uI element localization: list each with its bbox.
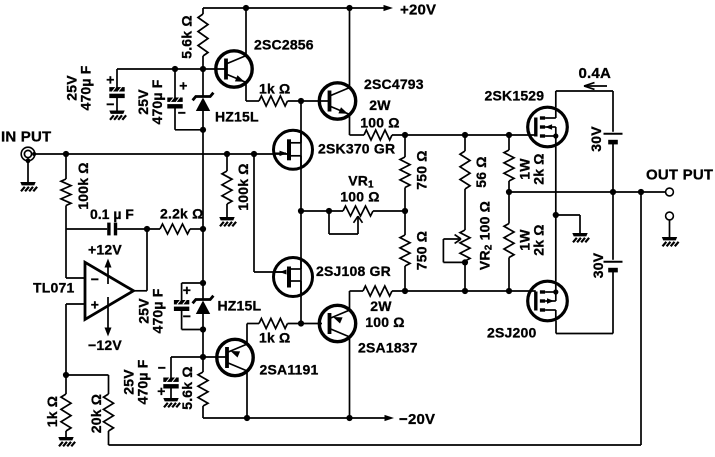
svg-text:−: − bbox=[158, 360, 166, 376]
svg-text:+20V: +20V bbox=[400, 2, 436, 19]
svg-text:IN PUT: IN PUT bbox=[1, 129, 51, 146]
svg-text:2SJ108 GR: 2SJ108 GR bbox=[316, 263, 391, 279]
label C1 25V 470uF bbox=[64, 65, 94, 110]
resistor 1kΩ upper bbox=[259, 96, 288, 106]
mid ground bbox=[572, 233, 589, 242]
jfet 2SJ108 GR bbox=[274, 258, 313, 297]
label 1kΩ feedback bbox=[44, 396, 60, 428]
label 20kΩ bbox=[88, 394, 104, 433]
zener diode HZ15L upper bbox=[193, 93, 214, 101]
wire node A down to 2SK370 drain bbox=[300, 101, 302, 211]
svg-text:+: + bbox=[91, 297, 99, 313]
label 2kΩ 1W upper bbox=[517, 153, 547, 185]
label 5.6kΩ lower bbox=[179, 366, 195, 410]
output terminal 2 bbox=[666, 212, 674, 220]
svg-text:TL071: TL071 bbox=[33, 280, 74, 296]
label 5.6kΩ upper bbox=[179, 15, 195, 59]
op-amp U1 TL071 bbox=[85, 262, 134, 319]
svg-text:0.4A: 0.4A bbox=[579, 65, 612, 82]
node B junction bbox=[298, 320, 304, 326]
svg-text:56 Ω: 56 Ω bbox=[473, 156, 489, 188]
svg-text:+12V: +12V bbox=[88, 242, 122, 258]
junction feedback node bbox=[63, 372, 69, 378]
wire upper output-drive bus bbox=[392, 134, 536, 136]
wire cap to 2.2k bbox=[117, 228, 160, 230]
resistor 1kΩ feedback to gnd bbox=[65, 375, 67, 394]
label C2 25V 470uF bbox=[135, 79, 165, 124]
junction dots cap bus bbox=[172, 66, 178, 72]
transistor Q2 2SC4793 bbox=[319, 83, 355, 119]
wire 1k lower to node B bbox=[288, 323, 323, 325]
junction dots input line bbox=[63, 151, 69, 157]
wire cap bus to base 2SC2856 bbox=[117, 68, 226, 70]
svg-text:2SJ200: 2SJ200 bbox=[487, 325, 536, 341]
svg-text:100 Ω: 100 Ω bbox=[360, 115, 399, 131]
svg-text:2SK1529: 2SK1529 bbox=[485, 88, 545, 104]
label 2kΩ 1W lower bbox=[517, 224, 547, 256]
potentiometer VR2 100Ω bbox=[460, 230, 470, 261]
label 750Ω lower bbox=[414, 231, 430, 270]
wire non-inverting input bbox=[66, 303, 85, 305]
capacitor C4 470uF 25V bbox=[170, 357, 172, 378]
wire gate drop to 2SJ108 bbox=[253, 154, 255, 272]
junction dots VR1 row bbox=[298, 208, 304, 214]
svg-text:470µ F: 470µ F bbox=[135, 359, 151, 404]
svg-text:−: − bbox=[91, 271, 99, 287]
wire to mid ground bbox=[556, 214, 580, 216]
svg-text:2SC2856: 2SC2856 bbox=[254, 37, 314, 53]
label 750Ω upper bbox=[414, 150, 430, 189]
wire C3 top bbox=[182, 282, 203, 284]
wire -20V bottom rail bbox=[203, 417, 385, 419]
svg-text:+: + bbox=[157, 383, 165, 399]
transistor Q3 2SA1191 bbox=[217, 339, 253, 375]
svg-text:OUT PUT: OUT PUT bbox=[646, 167, 713, 184]
output terminal 1 bbox=[666, 188, 674, 196]
wire 2SK1529 drain to battery bbox=[555, 91, 557, 107]
VR1 wiper bbox=[328, 211, 330, 234]
junction output node bbox=[506, 189, 512, 195]
junction dots lower bus bbox=[402, 288, 408, 294]
resistor 5.6kΩ upper bbox=[202, 8, 204, 14]
svg-text:5.6k Ω: 5.6k Ω bbox=[179, 15, 195, 59]
wire Q4 collector to -20V bbox=[349, 337, 351, 418]
svg-text:2k Ω: 2k Ω bbox=[531, 224, 547, 256]
resistor 750Ω upper bbox=[404, 135, 406, 157]
svg-text:2W: 2W bbox=[370, 298, 392, 314]
junction dot feedback bbox=[638, 189, 644, 195]
wire output line bbox=[509, 191, 666, 193]
wire to 20kΩ bbox=[66, 374, 109, 376]
resistor 20kΩ bbox=[108, 375, 110, 394]
label 30V upper bbox=[588, 126, 604, 152]
wire Q2 collector to +20V bbox=[349, 8, 351, 88]
svg-text:+: + bbox=[183, 282, 191, 298]
wire feedback bottom run bbox=[109, 444, 642, 446]
svg-text:HZ15L: HZ15L bbox=[215, 109, 259, 125]
capacitor C3 470uF 25V bbox=[181, 283, 183, 300]
resistor 100kΩ gate bbox=[226, 154, 228, 171]
svg-text:2SC4793: 2SC4793 bbox=[364, 76, 424, 92]
wire VR1 row bbox=[301, 210, 343, 212]
wire node B to 2SJ108 bbox=[300, 211, 302, 324]
mosfet Q6 2SJ200 bbox=[528, 281, 568, 321]
svg-text:100k Ω: 100k Ω bbox=[75, 162, 91, 209]
svg-text:−: − bbox=[178, 105, 186, 121]
label VR2 100Ω bbox=[477, 201, 495, 270]
ground below 100kΩ gate bbox=[219, 217, 236, 226]
jfet 2SK370 GR bbox=[274, 130, 313, 169]
label 56Ω bbox=[473, 156, 489, 188]
+12V supply arrow bbox=[107, 266, 109, 284]
wire feedback top bbox=[66, 228, 107, 230]
svg-text:2SA1191: 2SA1191 bbox=[260, 362, 319, 378]
svg-text:100 Ω: 100 Ω bbox=[365, 314, 404, 330]
potentiometer VR1 100Ω bbox=[343, 206, 373, 216]
wire inverting input bbox=[65, 229, 67, 278]
svg-text:VR2 100 Ω: VR2 100 Ω bbox=[477, 201, 495, 270]
svg-text:100k Ω: 100k Ω bbox=[235, 163, 251, 210]
wire 2.2k to rail bbox=[190, 228, 203, 230]
ground below C1 bbox=[109, 111, 126, 120]
resistor 2kΩ 1W upper bbox=[508, 135, 510, 150]
wire Q2 emitter bbox=[349, 114, 351, 135]
junction dots upper bus bbox=[402, 132, 408, 138]
wire C3 bottom bbox=[182, 329, 203, 331]
VR2 wiper bbox=[443, 238, 461, 240]
svg-text:−12V: −12V bbox=[88, 337, 122, 353]
wire battery mid bbox=[612, 143, 614, 192]
resistor 750Ω lower bbox=[404, 211, 406, 235]
wire Q3 emitter to 1k bbox=[246, 324, 248, 345]
resistor 2.2kΩ bbox=[160, 224, 190, 234]
label C4 25V 470uF bbox=[121, 359, 151, 404]
resistor 5.6kΩ lower bbox=[198, 372, 208, 406]
svg-text:0.1 µ F: 0.1 µ F bbox=[90, 206, 134, 222]
svg-text:470µ F: 470µ F bbox=[149, 79, 165, 124]
svg-text:1k Ω: 1k Ω bbox=[44, 396, 60, 428]
capacitor 0.1uF bbox=[107, 223, 110, 236]
input terminal bbox=[21, 147, 35, 161]
wire terminal2 to ground bbox=[669, 220, 671, 237]
svg-text:100 Ω: 100 Ω bbox=[340, 189, 379, 205]
label 100kΩ gate bbox=[235, 163, 251, 210]
svg-text:750 Ω: 750 Ω bbox=[414, 150, 430, 189]
wire Q3 collector to -20V bbox=[246, 371, 248, 418]
wire +20V top rail bbox=[203, 7, 384, 9]
svg-text:2k Ω: 2k Ω bbox=[531, 153, 547, 185]
svg-text:1k Ω: 1k Ω bbox=[259, 81, 291, 97]
wire to node A bbox=[288, 100, 330, 102]
svg-text:2.2k Ω: 2.2k Ω bbox=[160, 206, 204, 222]
wire Q1 collector to +20V bbox=[245, 8, 247, 56]
svg-text:2SK370 GR: 2SK370 GR bbox=[318, 141, 395, 157]
svg-text:750 Ω: 750 Ω bbox=[414, 231, 430, 270]
svg-text:30V: 30V bbox=[590, 252, 606, 278]
wire base 2SA1191 bbox=[171, 356, 227, 358]
svg-text:30V: 30V bbox=[588, 126, 604, 152]
mosfet Q5 2SK1529 bbox=[528, 107, 568, 147]
wire op-amp output bbox=[134, 290, 148, 292]
svg-text:20k Ω: 20k Ω bbox=[88, 394, 104, 433]
label C3 25V 470uF bbox=[136, 288, 166, 333]
svg-text:470µ F: 470µ F bbox=[78, 65, 94, 110]
input ground bbox=[26, 158, 31, 163]
svg-text:1k Ω: 1k Ω bbox=[259, 330, 291, 346]
wire Q1 emitter bbox=[245, 82, 247, 101]
svg-text:5.6k Ω: 5.6k Ω bbox=[179, 366, 195, 410]
svg-text:−: − bbox=[183, 308, 191, 324]
svg-text:2W: 2W bbox=[369, 97, 391, 113]
svg-text:−20V: −20V bbox=[399, 411, 435, 428]
transistor Q4 2SA1837 bbox=[319, 305, 355, 341]
resistor 100Ω 2W upper bbox=[364, 130, 392, 140]
svg-text:2SA1837: 2SA1837 bbox=[358, 340, 418, 356]
svg-text:HZ15L: HZ15L bbox=[218, 298, 262, 314]
wire C2 bottom to rail bbox=[175, 129, 203, 131]
battery 30V upper bbox=[604, 133, 623, 135]
wire battery bottom to 2SJ200 drain bbox=[612, 271, 614, 334]
arrowhead +20V bbox=[384, 5, 394, 11]
output ground bbox=[662, 237, 679, 246]
battery 30V lower bbox=[604, 261, 623, 263]
0.4A arrow bbox=[584, 85, 607, 87]
junction source-ground bbox=[553, 212, 559, 218]
wire input line bbox=[35, 153, 288, 155]
resistor 2kΩ 1W lower bbox=[508, 192, 510, 224]
svg-text:+: + bbox=[106, 72, 114, 88]
capacitor C2 470uF 25V bbox=[174, 69, 176, 98]
label 30V lower bbox=[590, 252, 606, 278]
ground below 1kΩ bbox=[58, 437, 75, 446]
svg-text:−: − bbox=[106, 96, 114, 112]
-12V supply arrow bbox=[107, 297, 109, 329]
node A junction bbox=[298, 98, 304, 104]
svg-text:+: + bbox=[179, 78, 187, 94]
label 100kΩ input bbox=[75, 162, 91, 209]
wire lower output-drive bus bbox=[392, 290, 536, 292]
resistor 100Ω 2W lower bbox=[363, 286, 392, 296]
capacitor C1 470uF 25V bbox=[116, 69, 118, 88]
zener diode HZ15L lower bbox=[193, 296, 214, 304]
ground below C4 bbox=[163, 398, 180, 407]
resistor 56Ω bbox=[464, 135, 466, 151]
svg-text:470µ F: 470µ F bbox=[150, 288, 166, 333]
transistor Q1 2SC2856 bbox=[216, 51, 252, 87]
resistor 100kΩ input bbox=[65, 154, 67, 179]
arrowhead -20V bbox=[385, 415, 395, 421]
resistor 1kΩ lower bbox=[259, 319, 288, 329]
wire Q4 emitter bbox=[349, 291, 351, 310]
wire source column bbox=[555, 147, 557, 281]
junction op-amp out bbox=[144, 226, 150, 232]
